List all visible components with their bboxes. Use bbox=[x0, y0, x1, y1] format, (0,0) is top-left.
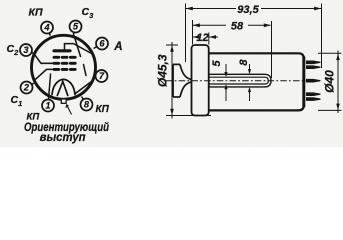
base pin side view top outer bbox=[306, 61, 321, 65]
grid C1 lead to pin 2 bbox=[36, 69, 54, 79]
svg-text:2: 2 bbox=[23, 83, 30, 93]
svg-text:4: 4 bbox=[43, 23, 50, 33]
pin 5 bbox=[70, 21, 82, 33]
cathode lead to pin 7 bbox=[75, 80, 93, 94]
svg-text:3: 3 bbox=[23, 45, 29, 55]
svg-text:Ø40: Ø40 bbox=[323, 70, 337, 93]
heater filament bbox=[57, 82, 68, 96]
svg-text:КП: КП bbox=[29, 7, 43, 19]
svg-text:А: А bbox=[113, 41, 122, 53]
wire stub to pin 1 bbox=[48, 73, 51, 105]
grid right-side lead bbox=[84, 65, 87, 76]
grid C3 lead from pin 5 bbox=[74, 36, 81, 57]
svg-text:93,5: 93,5 bbox=[237, 4, 259, 16]
base pin side view top inner bbox=[306, 65, 321, 69]
dim 8 arrow lines bbox=[249, 64, 251, 70]
bulb end edge thick bbox=[302, 57, 305, 108]
electrode labels bbox=[7, 6, 123, 144]
wire stub to pin 2 bbox=[27, 83, 34, 87]
dimension lines bbox=[166, 4, 342, 119]
pin 8 bbox=[81, 99, 93, 111]
svg-text:5: 5 bbox=[73, 22, 79, 32]
svg-text:Ø45,3: Ø45,3 bbox=[156, 54, 170, 87]
dim 5 and 8 arrowheads bbox=[224, 72, 227, 77]
base pin side view bottom inner bbox=[306, 92, 321, 96]
dim d40 line + ext bbox=[337, 51, 339, 114]
wire stub to pin 4 bbox=[47, 28, 50, 36]
svg-text:7: 7 bbox=[99, 71, 105, 81]
wire stub to pin 7 bbox=[94, 75, 101, 76]
svg-text:выступ: выступ bbox=[40, 130, 87, 144]
svg-text:КП: КП bbox=[96, 104, 110, 115]
dim 5 arrow lines bbox=[225, 64, 227, 73]
svg-text:8: 8 bbox=[238, 59, 250, 66]
bulb body bbox=[209, 53, 304, 110]
svg-text:6: 6 bbox=[99, 39, 105, 49]
axis centerline bbox=[166, 80, 314, 82]
svg-text:1: 1 bbox=[45, 101, 50, 111]
anode A plate bbox=[54, 49, 70, 52]
exhaust tip inner bbox=[209, 77, 268, 84]
exhaust tip outer bbox=[209, 74, 271, 87]
grid C1 row (bottom) bbox=[54, 68, 78, 71]
dim 12 ext + line bbox=[208, 33, 210, 45]
svg-text:8: 8 bbox=[84, 100, 90, 110]
cathode dome bbox=[52, 79, 75, 94]
base flange bbox=[192, 45, 209, 116]
svg-text:5: 5 bbox=[211, 60, 223, 67]
wire stub to pin 3 bbox=[26, 50, 34, 53]
base pin side view bottom outer bbox=[306, 97, 321, 101]
dimension texts bbox=[156, 4, 337, 93]
pin 3 bbox=[20, 44, 32, 56]
grid C3 row (top) bbox=[54, 56, 78, 59]
pin 1 bbox=[42, 100, 54, 112]
pin 4 bbox=[41, 22, 53, 34]
anode lead to pin 6 bbox=[65, 44, 92, 54]
grid C2 lead to pin 3 bbox=[35, 55, 54, 64]
pin numbers bbox=[23, 22, 106, 111]
wire stub to pin 5 bbox=[73, 27, 75, 36]
wire stub to pin 8 bbox=[82, 97, 87, 105]
pin 6 bbox=[96, 38, 108, 50]
base skirt bell bbox=[173, 64, 192, 97]
orienting key square bbox=[61, 99, 66, 103]
dimension arrowheads bbox=[186, 7, 193, 11]
pin 2 bbox=[21, 82, 33, 94]
grid C2 row (middle) bbox=[54, 62, 78, 65]
base pin side view middle bbox=[306, 79, 321, 83]
dim 58 ext + line bbox=[192, 20, 194, 45]
svg-text:12: 12 bbox=[196, 32, 208, 44]
svg-text:58: 58 bbox=[231, 20, 244, 32]
dim d45.3 line + ext bbox=[171, 42, 173, 119]
key pointer arrow bbox=[67, 106, 72, 115]
dim 93,5 ext lines bbox=[185, 4, 187, 63]
pin 7 bbox=[96, 70, 108, 82]
wire stub to pin 6 bbox=[94, 44, 103, 49]
tube envelope V1 bbox=[32, 35, 96, 99]
